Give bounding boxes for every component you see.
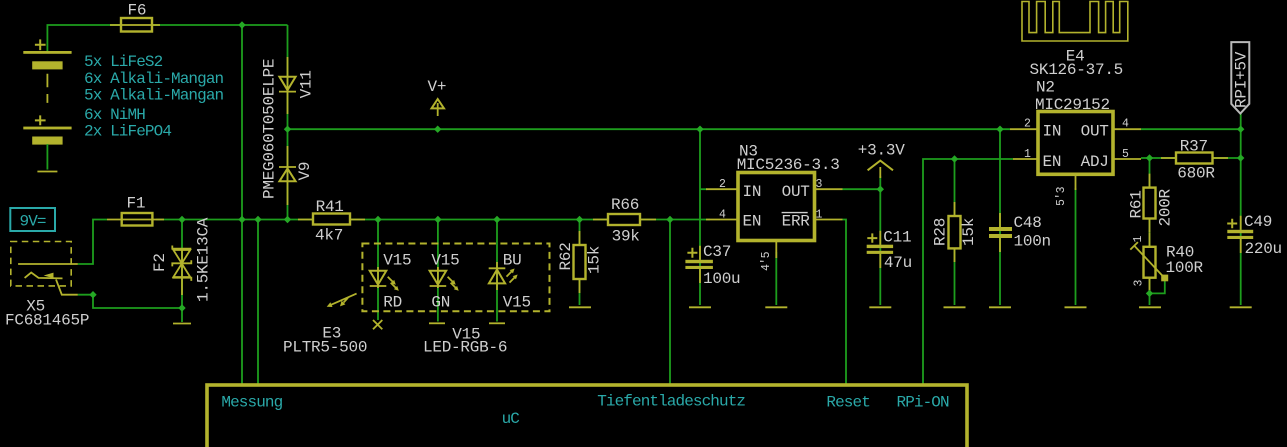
svg-text:100n: 100n (1014, 233, 1051, 251)
LED module dashed box (362, 244, 549, 312)
svg-text:RPi-ON: RPi-ON (897, 394, 950, 412)
svg-text:5x Alkali-Mangan: 5x Alkali-Mangan (84, 86, 224, 104)
svg-text:ADJ: ADJ (1081, 153, 1109, 171)
junction node V11 V9 V+ rail (284, 126, 291, 133)
junction node Messung tap2 (254, 216, 261, 223)
ground below TVS (173, 323, 191, 325)
+3.3V supply symbol (858, 142, 905, 178)
LED V15 green (430, 252, 460, 312)
svg-text:V11: V11 (298, 70, 316, 98)
V+ supply symbol (428, 78, 447, 116)
wire N3 IN stub joint (700, 188, 707, 190)
wire main rail y=219.5 (156, 219, 710, 221)
svg-text:V15: V15 (503, 293, 531, 311)
resistor R41 (298, 198, 365, 245)
svg-text:220u: 220u (1245, 240, 1282, 258)
wire N2 ADJ R37 feedback (1141, 157, 1241, 159)
battery B1 upper cell (23, 39, 71, 69)
junction node 3.3V node (877, 186, 884, 193)
schottky diode V11 (279, 57, 296, 114)
junction node TVS top (178, 216, 185, 223)
wire +3.3V / C11 column (879, 176, 881, 305)
junction node Messung tap1 (238, 216, 245, 223)
svg-text:OUT: OUT (782, 183, 810, 201)
svg-text:1: 1 (816, 209, 823, 222)
svg-text:V15: V15 (431, 252, 459, 270)
svg-text:EN: EN (743, 213, 762, 231)
svg-text:C49: C49 (1244, 213, 1272, 231)
regulator N2 MIC29152 (1010, 78, 1141, 206)
svg-text:LED-RGB-6: LED-RGB-6 (423, 339, 507, 357)
svg-text:MIC29152: MIC29152 (1035, 96, 1110, 114)
svg-text:C11: C11 (883, 229, 911, 247)
svg-text:C37: C37 (703, 243, 731, 261)
ground below C48 (989, 306, 1011, 308)
ground below N2 (1065, 306, 1087, 308)
junction node N3 IN drop (696, 126, 703, 133)
connector X5 pin 2 sleeve contact (25, 273, 78, 295)
connector X5 pin 1 center pin (18, 263, 78, 265)
svg-text:47u: 47u (884, 254, 912, 272)
svg-text:6x Alkali-Mangan: 6x Alkali-Mangan (84, 70, 224, 88)
ground below R62 (569, 306, 591, 308)
fuse F6 (110, 1, 160, 31)
svg-text:uC: uC (502, 410, 520, 428)
wire battery top to F6 to corner (47, 25, 287, 52)
capacitor C37 polarized (685, 243, 740, 288)
junction node R37 right (1237, 154, 1244, 161)
junction node LED3 top (493, 216, 500, 223)
connector X5 dashed outline (11, 242, 71, 286)
wire N3 IN / C37 column x=700 (699, 129, 701, 305)
svg-text:1: 1 (1024, 148, 1031, 161)
wire battery to ground (46, 144, 48, 169)
svg-text:39k: 39k (612, 228, 640, 246)
PMEG060T050ELPE label rotated (261, 59, 279, 199)
svg-text:R66: R66 (611, 196, 639, 214)
junction node R40 wiper (1146, 290, 1153, 297)
uC controller box (207, 385, 967, 447)
svg-text:IN: IN (743, 183, 762, 201)
TVS diode F2 (172, 246, 191, 296)
svg-text:9V=: 9V= (20, 213, 46, 231)
svg-text:Messung: Messung (221, 394, 282, 412)
TVS F2 name rotated (151, 253, 169, 272)
wire R61 R40 column (1149, 158, 1151, 305)
svg-text:GN: GN (431, 293, 450, 311)
wire N3 ERR to uC Reset (843, 220, 847, 386)
svg-text:200R: 200R (1157, 188, 1175, 226)
svg-text:MIC5236-3.3: MIC5236-3.3 (737, 156, 840, 174)
junction node V+ symbol (434, 126, 441, 133)
junction node N2 OUT flag (1237, 126, 1244, 133)
wire V+ rail y=129.2 (288, 128, 1011, 130)
svg-text:PLTR5-500: PLTR5-500 (283, 339, 367, 357)
junction node C48 drop (996, 126, 1003, 133)
svg-text:2x LiFePO4: 2x LiFePO4 (84, 123, 171, 141)
LED module name V15 LED-RGB-6 (423, 325, 507, 356)
no-connect X on LED1 cathode (373, 320, 382, 329)
svg-text:RD: RD (383, 293, 402, 311)
wire N2 GND column (1075, 188, 1077, 305)
resistor R62 vertical (557, 231, 604, 293)
svg-text:R41: R41 (316, 198, 344, 216)
wire Tiefentladeschutz tap x=670 (669, 220, 671, 386)
regulator N3 MIC5236 (706, 143, 843, 271)
wire N2 EN to uC RPi-ON (923, 159, 1013, 385)
svg-text:V+: V+ (428, 78, 447, 96)
wire C48 column (999, 129, 1001, 305)
junction node R28 top (951, 155, 958, 162)
svg-text:5'3: 5'3 (1055, 186, 1068, 206)
junction node R62 top (576, 216, 583, 223)
svg-text:PMEG060T050ELPE: PMEG060T050ELPE (261, 59, 279, 199)
svg-text:2: 2 (719, 178, 726, 191)
diode V9 name rotated (296, 162, 314, 181)
ground below C11 (869, 306, 891, 308)
junction node jack pin2 (89, 291, 96, 298)
svg-text:680R: 680R (1177, 164, 1215, 182)
svg-text:V15: V15 (383, 252, 411, 270)
wire Messung tap 2 x=258 (257, 220, 259, 386)
junction node R66 EN tap (666, 216, 673, 223)
ground below R28 (944, 306, 966, 308)
svg-text:100R: 100R (1166, 259, 1204, 277)
svg-text:BU: BU (503, 252, 522, 270)
LED V15 blue reversed (489, 252, 531, 312)
svg-text:1: 1 (1132, 236, 1145, 243)
resistor R61 vertical (1128, 174, 1175, 233)
capacitor C49 polarized (1227, 213, 1282, 258)
ground below battery (37, 171, 57, 173)
svg-text:1.5KE13CA: 1.5KE13CA (195, 217, 213, 302)
svg-text:F6: F6 (128, 1, 147, 19)
svg-text:3: 3 (1133, 280, 1146, 287)
ground below C49 (1230, 306, 1252, 308)
wire battery column V11 V9 x=287.5 (287, 25, 289, 220)
wire LED2 column (437, 220, 439, 322)
wire LED3 column (496, 220, 498, 322)
junction node LED1 top (374, 216, 381, 223)
resistor R28 vertical (932, 202, 979, 262)
wire R28 column (954, 159, 956, 305)
ground below N3 (765, 306, 787, 308)
svg-text:F2: F2 (151, 253, 169, 272)
wire N3 OUT to 3.3V node (843, 188, 881, 190)
svg-text:15k: 15k (960, 218, 978, 246)
junction node R61 top (1146, 154, 1153, 161)
svg-text:OUT: OUT (1081, 123, 1109, 141)
heatsink E4 (1022, 2, 1128, 79)
9V= supply label box (10, 208, 55, 231)
svg-text:+3.3V: +3.3V (858, 142, 905, 160)
battery B2 lower cell (23, 115, 71, 144)
svg-text:IN: IN (1043, 123, 1062, 141)
RPI+5V flag (1231, 42, 1250, 113)
trimmer R40 (1130, 233, 1203, 292)
svg-text:RPI+5V: RPI+5V (1233, 51, 1251, 108)
capacitor C48 (989, 213, 1051, 252)
svg-text:FC681465P: FC681465P (5, 311, 89, 329)
wire N3 GND column (775, 252, 777, 305)
sensor E3 labels (283, 325, 367, 357)
svg-text:V9: V9 (296, 162, 314, 181)
svg-text:Tiefentladeschutz: Tiefentladeschutz (597, 393, 745, 411)
svg-text:6x NiMH: 6x NiMH (84, 106, 145, 124)
svg-text:N2: N2 (1036, 78, 1055, 96)
junction node LED2 top (434, 216, 441, 223)
diode V11 name rotated (298, 70, 316, 98)
svg-text:2: 2 (1024, 118, 1031, 131)
schottky diode V9 (279, 146, 296, 205)
wire TVS column (181, 220, 183, 323)
resistor R37 (1161, 138, 1228, 183)
svg-text:15k: 15k (586, 246, 604, 274)
light sensor E3 arrows (327, 294, 357, 307)
svg-text:SK126-37.5: SK126-37.5 (1030, 61, 1124, 79)
wire jack pin2 to TVS bottom (78, 295, 182, 308)
svg-text:R28: R28 (932, 218, 950, 246)
svg-text:Reset: Reset (826, 394, 870, 412)
svg-text:4: 4 (719, 209, 726, 222)
wire LED1 column (377, 220, 379, 321)
battery options text (84, 53, 224, 141)
svg-text:100u: 100u (703, 270, 740, 288)
wire Messung tap 1 x=242 (241, 25, 243, 385)
resistor R66 (593, 196, 656, 246)
svg-text:ERR: ERR (782, 213, 811, 231)
svg-text:4: 4 (1122, 118, 1129, 131)
fuse F1 (107, 195, 164, 226)
svg-text:EN: EN (1043, 153, 1062, 171)
svg-text:F1: F1 (127, 195, 146, 213)
svg-text:4k7: 4k7 (315, 226, 343, 244)
ground below LED blue (489, 322, 505, 324)
svg-text:5x LiFeS2: 5x LiFeS2 (84, 53, 163, 71)
svg-text:R37: R37 (1180, 138, 1208, 156)
junction node V9 bottom (284, 216, 291, 223)
wire F1 left to jack pin1 (78, 220, 107, 265)
wire R62 column (579, 220, 581, 306)
junction node TVS bottom (178, 304, 185, 311)
svg-text:4'5: 4'5 (760, 251, 773, 271)
wire N2 OUT to RPI+5V flag and C49 (1141, 112, 1241, 305)
svg-text:R61: R61 (1128, 190, 1146, 218)
svg-text:3: 3 (816, 178, 823, 191)
svg-text:5: 5 (1122, 148, 1129, 161)
junction node F6 tap (238, 21, 245, 28)
ground below C37 (689, 306, 711, 308)
capacitor C11 polarized (867, 229, 912, 273)
ground below LED green (429, 322, 445, 324)
svg-text:R62: R62 (557, 242, 575, 270)
TVS value 1.5KE13CA rotated (195, 217, 213, 302)
battery series dashes (46, 74, 48, 103)
wire R40 wiper return (1150, 281, 1165, 293)
LED V15 red (370, 252, 412, 312)
connector X5 labels (5, 298, 89, 330)
svg-text:C48: C48 (1014, 214, 1042, 232)
ground below R40 (1139, 306, 1161, 308)
